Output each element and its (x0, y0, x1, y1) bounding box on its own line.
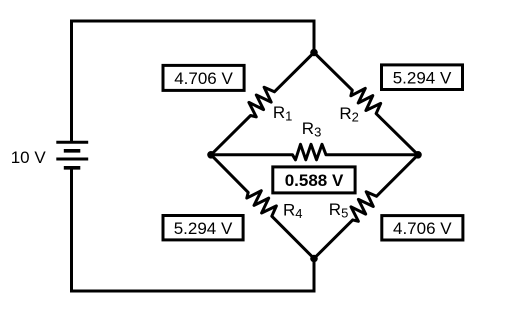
voltage box top-right 5.294 V (382, 65, 463, 90)
node top junction (310, 49, 318, 57)
voltage box top-left 4.706 V (163, 65, 244, 90)
svg-text:4.706 V: 4.706 V (393, 219, 452, 238)
svg-text:R4: R4 (283, 200, 303, 221)
resistor R5 (bottom node to right node, with wire) (314, 155, 418, 259)
resistor R1 (left node to top node, with wire) (211, 53, 314, 155)
svg-text:4.706 V: 4.706 V (174, 69, 233, 88)
battery V1 plate short bottom (-) (64, 166, 81, 170)
voltage box bottom-left 5.294 V (163, 216, 243, 240)
svg-text:R5: R5 (329, 200, 349, 221)
node left junction (207, 151, 215, 159)
svg-text:R3: R3 (302, 119, 322, 140)
svg-text:R2: R2 (339, 104, 359, 125)
svg-text:10 V: 10 V (11, 148, 47, 167)
battery V1 plate long (+) (56, 158, 88, 161)
node bottom junction (310, 255, 318, 263)
node right junction (414, 151, 422, 159)
battery V1 plate short (-) (64, 149, 81, 153)
svg-text:5.294 V: 5.294 V (393, 68, 452, 87)
voltage box middle 0.588 V (273, 167, 355, 193)
svg-text:0.588 V: 0.588 V (285, 171, 344, 190)
wire bottom-left loop: battery negative down, across to bottom of bridge (72, 168, 315, 291)
svg-text:R1: R1 (273, 103, 293, 124)
svg-text:5.294 V: 5.294 V (174, 219, 233, 238)
resistor R2 (top node to right node, with wire) (314, 53, 418, 155)
voltage box bottom-right 4.706 V (382, 216, 463, 240)
resistor R4 (left node to bottom node, with wire) (211, 155, 314, 259)
wire top-left loop: battery positive up, across to top of bridge (72, 21, 315, 142)
battery V1 plate long top (+) (56, 141, 88, 144)
resistor R3 (left node to right node, with wire) (211, 144, 418, 160)
